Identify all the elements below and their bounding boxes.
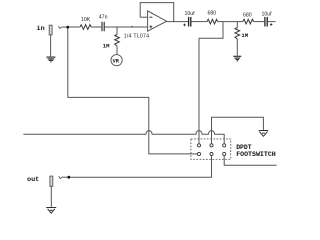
node IN junction dot xyxy=(66,26,69,29)
DPDT footswitch dashed box xyxy=(191,139,231,159)
footswitch lug top-right xyxy=(223,144,226,147)
wire contact to node IN xyxy=(62,26,66,28)
wire R3 to node C and resistor R5 xyxy=(218,21,243,23)
wire node B down to resistor R2 xyxy=(116,27,118,35)
svg-text:DPDT: DPDT xyxy=(236,144,252,151)
output jack tip contact arc xyxy=(59,176,63,178)
resistor R5 680 xyxy=(243,19,254,24)
label C3 plus polarity xyxy=(270,23,273,26)
wire node IN down across to footswitch bottom-left lug xyxy=(68,28,198,153)
ground G1 under input jack xyxy=(46,57,55,62)
wire R1 to capacitor C1 xyxy=(91,26,101,28)
op-amp U1 minus input mark xyxy=(149,16,152,18)
wire node C4 tap down to resistor R4 xyxy=(236,22,238,28)
wire footswitch top-middle lug to ground G4 xyxy=(212,117,264,143)
op-amp U1 plus input mark xyxy=(149,25,152,28)
wire contact to node OUT xyxy=(63,176,68,178)
ground G4 xyxy=(259,131,268,137)
input jack J1 body xyxy=(49,25,52,35)
svg-text:680: 680 xyxy=(243,12,252,18)
wire R4 to ground G3 xyxy=(236,39,238,55)
control VR circle xyxy=(111,55,122,66)
wire R2 to control VR xyxy=(116,46,118,55)
footswitch lug top-middle xyxy=(210,144,213,147)
wire node C down and left to footswitch top-left lug xyxy=(199,22,223,144)
wire R5 to capacitor C3 xyxy=(254,21,265,23)
wire feedback stub to U1 inverting input xyxy=(140,16,147,18)
op-amp U1 triangle xyxy=(148,11,167,31)
svg-text:47n: 47n xyxy=(99,15,108,21)
label C2 plus polarity xyxy=(183,24,186,27)
svg-text:680: 680 xyxy=(208,11,217,17)
svg-text:out: out xyxy=(27,176,39,184)
svg-text:1M: 1M xyxy=(103,43,110,50)
resistor R2 1M vertical xyxy=(115,35,120,47)
wire C2 to resistor R3 xyxy=(192,21,208,23)
resistor R1 10K xyxy=(80,25,91,30)
svg-text:10K: 10K xyxy=(81,17,91,23)
wire J2 sleeve to ground xyxy=(50,186,52,207)
footswitch lug bottom-right xyxy=(223,152,226,155)
footswitch lug top-left xyxy=(197,144,200,147)
footswitch lug bottom-middle xyxy=(210,152,213,155)
svg-text:1M: 1M xyxy=(241,32,248,39)
svg-text:10uf: 10uf xyxy=(262,12,273,18)
ground G3 under R4 xyxy=(233,56,241,61)
svg-text:FOOTSWITCH: FOOTSWITCH xyxy=(236,151,276,158)
input jack tip contact arc xyxy=(59,26,63,28)
wire C3 to output pad free end xyxy=(268,21,276,23)
wire bypass line with hops to footswitch top-right lug xyxy=(23,131,224,144)
svg-text:10uf: 10uf xyxy=(185,11,196,17)
capacitor C1 47n xyxy=(102,22,104,31)
wire J1 sleeve to ground xyxy=(50,35,52,57)
footswitch lug bottom-left xyxy=(197,152,200,155)
svg-text:in: in xyxy=(37,25,45,33)
wire feedback loop xyxy=(140,3,174,22)
svg-text:1/4 TL074: 1/4 TL074 xyxy=(124,34,150,40)
wire footswitch bottom-right lug down and right free end xyxy=(224,156,277,166)
capacitor C2 10uf electrolytic xyxy=(189,17,191,27)
wire C1 to op-amp U1 non-inverting input xyxy=(105,26,148,28)
output jack J2 body xyxy=(50,176,53,186)
wire footswitch bottom-middle lug to output node xyxy=(70,156,212,178)
node OUT junction dot xyxy=(67,176,70,179)
wire node IN to resistor R1 xyxy=(69,26,80,28)
wire U1 output to capacitor C2 xyxy=(167,21,188,23)
signal direction arrow on wire xyxy=(131,26,134,28)
resistor R4 1M vertical xyxy=(235,28,240,40)
ground G2 under output jack xyxy=(46,208,56,214)
resistor R3 680 xyxy=(207,19,218,24)
capacitor C3 10uf electrolytic xyxy=(265,17,267,27)
svg-text:VR: VR xyxy=(113,58,120,64)
